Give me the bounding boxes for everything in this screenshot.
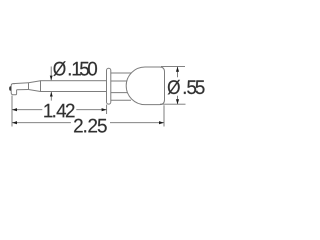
dim leader O.150 lower arrow bbox=[50, 92, 52, 101]
text O.150 bbox=[53, 61, 97, 76]
barrel bbox=[41, 81, 107, 92]
O.55 dim line lower w/ arrow bbox=[177, 96, 179, 104]
hook tip point (dark blob) bbox=[9, 86, 11, 91]
body (grip) bbox=[126, 67, 164, 105]
O.55 dim line upper w/ arrow bbox=[177, 67, 179, 78]
left extension line bbox=[11, 96, 13, 127]
rod (thin shaft) bbox=[13, 83, 28, 90]
text 1.42 bbox=[44, 104, 74, 118]
ext line 2.25 right bbox=[163, 105, 165, 126]
dim line 1.42 bbox=[12, 109, 107, 111]
flange disc bbox=[107, 68, 111, 104]
neck lines bbox=[111, 73, 131, 100]
dim line 2.25 bbox=[12, 122, 164, 124]
ext line 1.42 right bbox=[106, 105, 108, 114]
text O.55 bbox=[168, 80, 205, 95]
hook body bbox=[11, 84, 16, 95]
cone taper bbox=[29, 81, 41, 92]
O.55 bottom extension line bbox=[160, 103, 186, 105]
text 2.25 bbox=[74, 119, 107, 133]
dim leader O.150 upper arrow bbox=[50, 67, 52, 81]
O.55 top extension line bbox=[161, 65, 185, 67]
